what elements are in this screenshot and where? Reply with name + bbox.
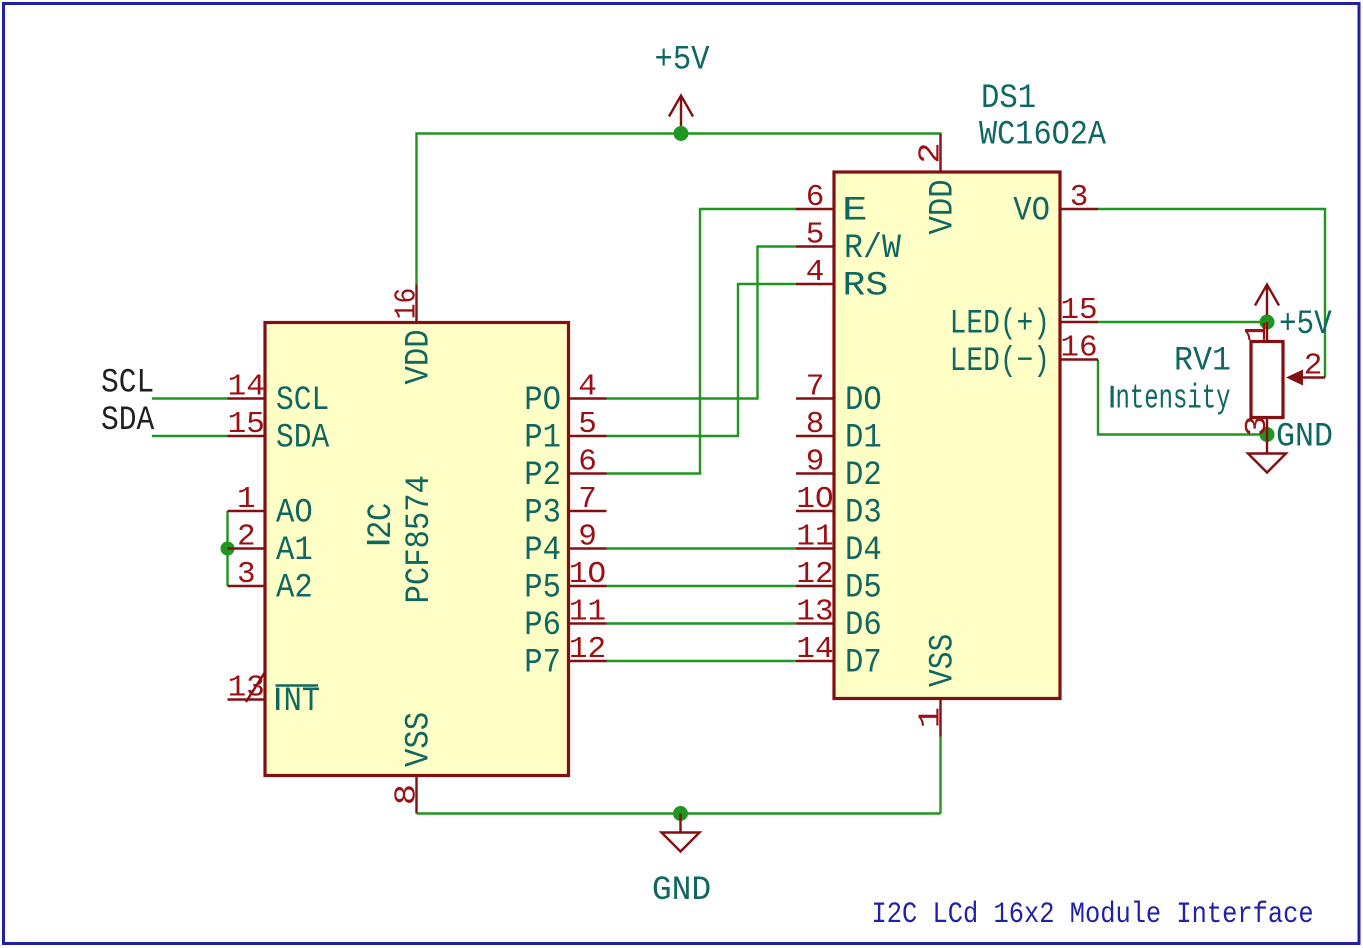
- svg-text:P6: P6: [524, 606, 561, 645]
- svg-text:SCL: SCL: [276, 380, 329, 419]
- svg-text:NT: NT: [284, 682, 321, 721]
- svg-text:7: 7: [806, 370, 825, 405]
- svg-text:P1: P1: [524, 418, 561, 457]
- svg-text:1: 1: [237, 482, 256, 517]
- svg-text:7: 7: [578, 482, 597, 517]
- svg-text:C: C: [362, 503, 401, 521]
- svg-text:1: 1: [913, 707, 948, 728]
- svg-text:PO: PO: [524, 381, 561, 420]
- svg-text:5: 5: [578, 407, 597, 442]
- svg-text:P2: P2: [524, 456, 561, 495]
- svg-text:VDD: VDD: [923, 179, 962, 234]
- svg-text:LED(−): LED(−): [950, 343, 1050, 381]
- svg-text:6: 6: [578, 445, 597, 480]
- svg-text:15: 15: [1060, 293, 1097, 328]
- svg-text:11: 11: [569, 595, 606, 630]
- svg-text:SDA: SDA: [276, 418, 330, 457]
- svg-text:12: 12: [569, 632, 606, 667]
- svg-text:4: 4: [806, 255, 825, 290]
- svg-text:2: 2: [913, 142, 948, 163]
- svg-text:15: 15: [228, 407, 265, 442]
- svg-text:VSS: VSS: [923, 634, 962, 687]
- svg-text:2: 2: [1304, 349, 1323, 384]
- svg-text:2: 2: [362, 521, 401, 539]
- svg-text:GND: GND: [1276, 418, 1333, 456]
- svg-text:8: 8: [806, 407, 825, 442]
- svg-text:11: 11: [796, 520, 833, 555]
- svg-text:VDD: VDD: [399, 329, 438, 384]
- svg-text:D7: D7: [845, 643, 882, 682]
- svg-text:A1: A1: [276, 531, 313, 570]
- svg-text:16: 16: [1060, 331, 1097, 366]
- svg-text:D1: D1: [845, 418, 882, 457]
- svg-text:E: E: [842, 191, 868, 230]
- svg-text:SDA: SDA: [101, 400, 155, 439]
- svg-text:9: 9: [578, 520, 597, 555]
- svg-text:3: 3: [1240, 415, 1275, 436]
- svg-text:14: 14: [228, 370, 265, 405]
- svg-text:3: 3: [1070, 180, 1089, 215]
- svg-text:P3: P3: [524, 493, 561, 532]
- svg-text:16: 16: [389, 288, 425, 320]
- svg-text:14: 14: [796, 632, 833, 667]
- svg-text:LED(+): LED(+): [950, 305, 1050, 343]
- svg-text:+5V: +5V: [1279, 305, 1332, 344]
- svg-text:RV1: RV1: [1174, 342, 1231, 380]
- svg-text:13: 13: [796, 595, 833, 630]
- svg-text:D5: D5: [845, 568, 882, 607]
- svg-text:+5V: +5V: [654, 40, 710, 79]
- svg-text:ntensity: ntensity: [1116, 380, 1231, 418]
- svg-text:D2: D2: [845, 456, 882, 495]
- svg-text:PCF8574: PCF8574: [400, 475, 439, 603]
- svg-text:8: 8: [389, 784, 424, 805]
- svg-text:D4: D4: [845, 531, 882, 570]
- svg-text:4: 4: [578, 370, 597, 405]
- svg-text:RS: RS: [843, 266, 889, 305]
- svg-text:1: 1: [1240, 321, 1275, 342]
- svg-text:VSS: VSS: [399, 712, 438, 767]
- svg-text:9: 9: [806, 445, 825, 480]
- svg-text:13: 13: [228, 671, 265, 706]
- svg-text:I2C LCd 16x2 Module Interface: I2C LCd 16x2 Module Interface: [872, 898, 1314, 931]
- svg-text:1O: 1O: [569, 557, 606, 592]
- svg-text:R/W: R/W: [844, 229, 901, 267]
- svg-text:GND: GND: [652, 872, 711, 911]
- svg-text:WC16O2A: WC16O2A: [979, 115, 1107, 154]
- svg-text:6: 6: [806, 180, 825, 215]
- svg-text:2: 2: [237, 520, 256, 555]
- svg-text:5: 5: [806, 218, 825, 253]
- svg-text:DO: DO: [845, 381, 882, 420]
- svg-text:DS1: DS1: [981, 79, 1036, 118]
- svg-text:1O: 1O: [796, 482, 833, 517]
- svg-text:A2: A2: [276, 568, 313, 607]
- svg-text:D3: D3: [845, 493, 882, 532]
- svg-text:12: 12: [796, 557, 833, 592]
- svg-text:3: 3: [237, 557, 256, 592]
- svg-text:AO: AO: [276, 493, 313, 532]
- svg-text:VO: VO: [1013, 191, 1050, 230]
- svg-text:P5: P5: [524, 568, 561, 607]
- svg-text:P4: P4: [524, 531, 561, 570]
- svg-text:P7: P7: [524, 643, 561, 682]
- svg-text:D6: D6: [845, 606, 882, 645]
- svg-text:SCL: SCL: [101, 363, 154, 402]
